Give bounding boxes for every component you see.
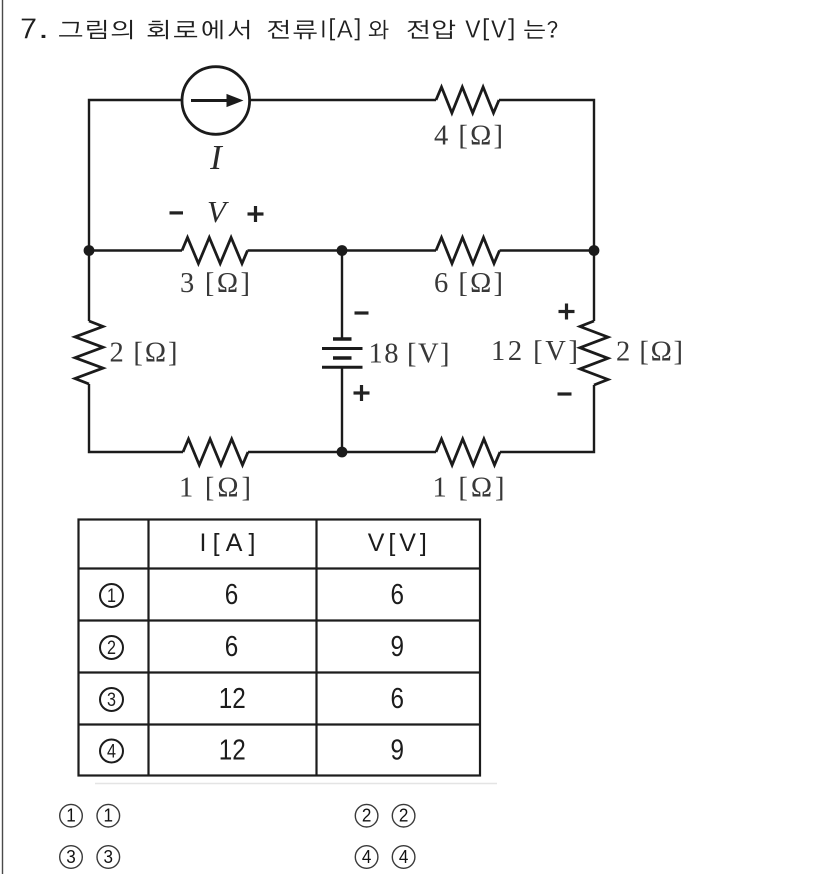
svg-text:18 [V]: 18 [V] xyxy=(369,339,450,370)
title: 7. 그림의 회로에서 전류 I[A]와 전압 V[V]는? xyxy=(22,18,557,40)
option circled 4 xyxy=(392,846,415,869)
svg-text:3: 3 xyxy=(104,847,114,867)
battery 18 V (center branch) xyxy=(322,339,363,367)
svg-text:6: 6 xyxy=(391,579,405,611)
polarity labels - V + above 3 ohm xyxy=(170,194,264,229)
battery minus sign xyxy=(355,311,369,314)
node bottom-center junction dot xyxy=(337,447,348,458)
minus sign right resistor xyxy=(558,392,572,395)
option circled 2 xyxy=(392,804,415,827)
svg-text:6: 6 xyxy=(391,683,405,715)
svg-text:9: 9 xyxy=(391,735,405,767)
svg-text:6: 6 xyxy=(225,579,239,611)
node right-middle junction dot xyxy=(589,245,600,256)
wire middle row left xyxy=(89,249,182,251)
wire center branch below battery xyxy=(341,368,343,452)
wire middle row center xyxy=(248,249,437,251)
svg-text:4: 4 xyxy=(362,847,372,867)
option circled 1 xyxy=(60,804,83,827)
svg-text:4: 4 xyxy=(399,847,409,867)
resistor 1 ohm (bottom right) xyxy=(436,439,500,465)
battery plus sign xyxy=(354,385,370,401)
svg-text:2: 2 xyxy=(399,806,409,826)
svg-text:1: 1 xyxy=(107,586,116,607)
wire middle row right xyxy=(500,249,595,251)
resistor 4 ohm (top) xyxy=(436,87,499,113)
wire left side from middle node down to 2-ohm resistor xyxy=(88,251,90,322)
table row 1: circled 1, I=6, V=6 xyxy=(100,579,404,611)
wire bottom between 1-ohm resistors xyxy=(248,451,436,453)
table row 3: circled 3, I=12, V=6 xyxy=(100,683,404,715)
wire center branch above battery xyxy=(341,251,343,339)
svg-text:2: 2 xyxy=(107,638,116,659)
svg-text:V: V xyxy=(207,194,229,229)
wire left side below 2-ohm to bottom-left corner xyxy=(89,384,183,452)
node left-middle junction dot xyxy=(84,245,95,256)
resistor 6 ohm (middle right) xyxy=(436,238,500,264)
answer table xyxy=(79,520,481,776)
svg-text:9: 9 xyxy=(391,631,405,663)
option circled 2 xyxy=(355,804,378,827)
plus sign right resistor xyxy=(559,304,575,320)
svg-text:6: 6 xyxy=(225,631,239,663)
resistor 2 ohm (left side, vertical) xyxy=(75,321,103,384)
svg-text:12: 12 xyxy=(219,683,246,715)
wire bottom-right corner xyxy=(500,385,594,452)
svg-text:3: 3 xyxy=(107,690,116,711)
resistor 1 ohm (bottom left) xyxy=(183,439,248,465)
current source I (circle with arrow) xyxy=(182,67,250,135)
resistor 2 ohm (right side, vertical) xyxy=(580,321,608,385)
svg-text:4: 4 xyxy=(107,742,116,763)
svg-text:12 [V]: 12 [V] xyxy=(491,336,578,367)
table row 4: circled 4, I=12, V=9 xyxy=(100,735,404,767)
svg-text:2: 2 xyxy=(362,806,372,826)
option circled 4 xyxy=(355,846,378,869)
option circled 1 xyxy=(97,804,120,827)
resistor 3 ohm (middle left) xyxy=(182,238,248,264)
wire from current source to 4-ohm resistor xyxy=(250,99,437,101)
option circled 3 xyxy=(60,846,83,869)
table row 2: circled 2, I=6, V=9 xyxy=(100,631,404,663)
option circled 3 xyxy=(97,846,120,869)
svg-text:1: 1 xyxy=(104,806,114,826)
wire top-right corner down right side xyxy=(499,100,594,321)
node center-middle junction dot xyxy=(337,245,348,256)
svg-text:1: 1 xyxy=(66,806,76,826)
wire top-left from left corner to current source xyxy=(89,100,182,251)
svg-text:3: 3 xyxy=(66,847,76,867)
svg-text:12: 12 xyxy=(219,735,246,767)
